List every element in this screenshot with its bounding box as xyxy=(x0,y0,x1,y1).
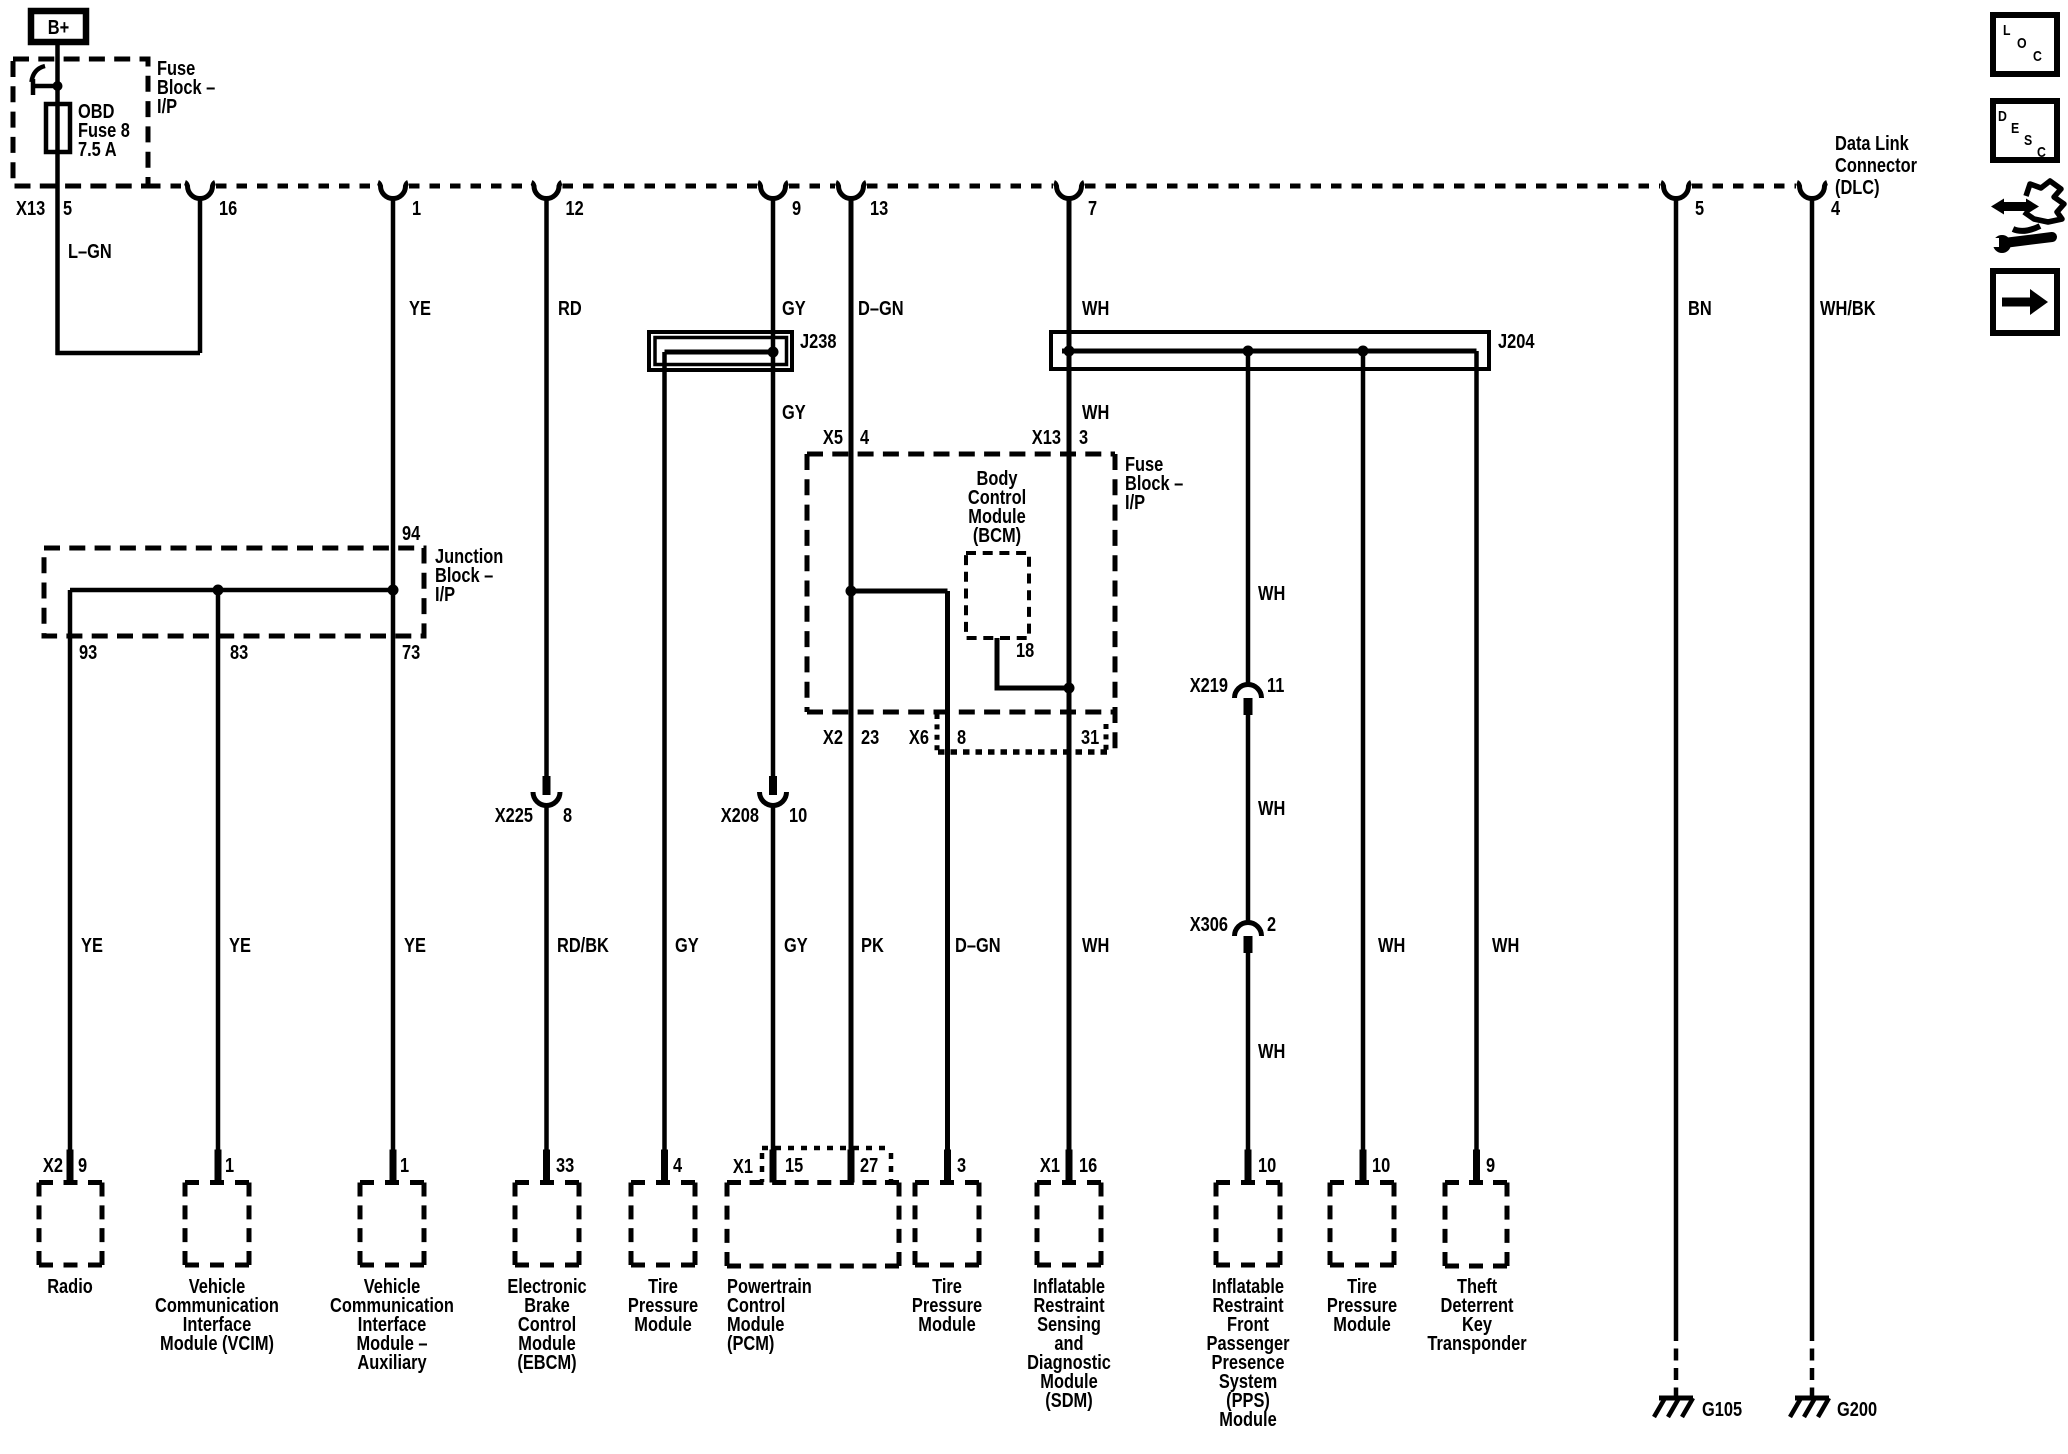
svg-text:X1: X1 xyxy=(733,1156,753,1178)
svg-text:11: 11 xyxy=(1267,675,1284,697)
svg-text:1: 1 xyxy=(412,198,421,220)
svg-text:31: 31 xyxy=(1081,727,1099,749)
svg-text:X2: X2 xyxy=(43,1155,63,1177)
svg-text:9: 9 xyxy=(1486,1155,1495,1177)
svg-text:Module: Module xyxy=(1219,1409,1276,1431)
svg-text:GY: GY xyxy=(675,935,699,957)
svg-text:73: 73 xyxy=(402,642,420,664)
svg-text:WH: WH xyxy=(1378,935,1405,957)
svg-text:WH: WH xyxy=(1082,298,1109,320)
svg-text:WH: WH xyxy=(1258,583,1285,605)
svg-text:O: O xyxy=(2017,35,2027,52)
svg-text:9: 9 xyxy=(792,198,801,220)
svg-text:Data Link: Data Link xyxy=(1835,133,1910,155)
svg-text:Connector: Connector xyxy=(1835,155,1917,177)
svg-text:4: 4 xyxy=(1831,198,1841,220)
svg-text:YE: YE xyxy=(229,935,251,957)
svg-text:2: 2 xyxy=(1267,914,1276,936)
svg-text:RD/BK: RD/BK xyxy=(557,935,609,957)
svg-text:27: 27 xyxy=(860,1155,878,1177)
svg-text:8: 8 xyxy=(957,727,966,749)
svg-text:RD: RD xyxy=(558,298,582,320)
svg-text:Module: Module xyxy=(1333,1314,1390,1336)
svg-text:L: L xyxy=(2003,22,2011,39)
svg-text:GY: GY xyxy=(782,298,806,320)
svg-text:G200: G200 xyxy=(1837,1399,1877,1421)
svg-text:7: 7 xyxy=(1088,198,1097,220)
svg-text:7.5 A: 7.5 A xyxy=(78,139,117,161)
svg-text:Module (VCIM): Module (VCIM) xyxy=(160,1333,274,1355)
svg-text:I/P: I/P xyxy=(435,584,455,606)
svg-text:WH: WH xyxy=(1082,402,1109,424)
svg-text:10: 10 xyxy=(1258,1155,1276,1177)
svg-text:23: 23 xyxy=(861,727,879,749)
svg-text:PK: PK xyxy=(861,935,884,957)
svg-text:WH: WH xyxy=(1258,798,1285,820)
svg-text:D–GN: D–GN xyxy=(858,298,904,320)
svg-text:10: 10 xyxy=(789,805,807,827)
svg-text:X5: X5 xyxy=(823,427,843,449)
svg-text:D: D xyxy=(1998,108,2007,125)
svg-text:Auxiliary: Auxiliary xyxy=(357,1352,427,1374)
svg-text:(SDM): (SDM) xyxy=(1045,1390,1092,1412)
svg-text:3: 3 xyxy=(1079,427,1088,449)
svg-text:D–GN: D–GN xyxy=(955,935,1001,957)
svg-text:X13: X13 xyxy=(16,198,45,220)
svg-text:16: 16 xyxy=(219,198,237,220)
svg-text:X306: X306 xyxy=(1190,914,1228,936)
svg-text:3: 3 xyxy=(957,1155,966,1177)
svg-text:1: 1 xyxy=(400,1155,409,1177)
svg-text:WH: WH xyxy=(1082,935,1109,957)
svg-text:J204: J204 xyxy=(1498,331,1535,353)
svg-text:YE: YE xyxy=(404,935,426,957)
svg-text:L–GN: L–GN xyxy=(68,241,112,263)
svg-text:93: 93 xyxy=(79,642,97,664)
svg-text:9: 9 xyxy=(78,1155,87,1177)
svg-text:8: 8 xyxy=(563,805,572,827)
svg-text:(BCM): (BCM) xyxy=(973,525,1021,547)
svg-text:5: 5 xyxy=(63,198,72,220)
svg-text:S: S xyxy=(2024,132,2032,149)
svg-text:16: 16 xyxy=(1079,1155,1097,1177)
svg-text:I/P: I/P xyxy=(1125,492,1145,514)
svg-text:(PCM): (PCM) xyxy=(727,1333,774,1355)
svg-text:YE: YE xyxy=(409,298,431,320)
svg-text:5: 5 xyxy=(1695,198,1704,220)
svg-text:4: 4 xyxy=(860,427,870,449)
svg-text:Module: Module xyxy=(918,1314,975,1336)
svg-text:12: 12 xyxy=(566,198,584,220)
svg-text:WH/BK: WH/BK xyxy=(1820,298,1876,320)
svg-text:GY: GY xyxy=(784,935,808,957)
svg-text:94: 94 xyxy=(402,523,421,545)
svg-text:(EBCM): (EBCM) xyxy=(517,1352,576,1374)
svg-text:4: 4 xyxy=(673,1155,683,1177)
svg-text:WH: WH xyxy=(1258,1041,1285,1063)
svg-text:15: 15 xyxy=(785,1155,803,1177)
svg-text:33: 33 xyxy=(556,1155,574,1177)
svg-text:Module: Module xyxy=(634,1314,691,1336)
svg-text:10: 10 xyxy=(1372,1155,1390,1177)
svg-text:X225: X225 xyxy=(495,805,533,827)
svg-text:X1: X1 xyxy=(1040,1155,1060,1177)
svg-text:GY: GY xyxy=(782,402,806,424)
svg-text:J238: J238 xyxy=(800,331,837,353)
svg-text:13: 13 xyxy=(870,198,888,220)
svg-text:Radio: Radio xyxy=(47,1276,93,1298)
svg-text:(DLC): (DLC) xyxy=(1835,177,1880,199)
svg-text:83: 83 xyxy=(230,642,248,664)
svg-text:Transponder: Transponder xyxy=(1427,1333,1526,1355)
svg-text:X208: X208 xyxy=(721,805,759,827)
svg-text:E: E xyxy=(2011,120,2019,137)
svg-text:I/P: I/P xyxy=(157,96,177,118)
svg-text:WH: WH xyxy=(1492,935,1519,957)
svg-text:18: 18 xyxy=(1016,640,1034,662)
svg-text:1: 1 xyxy=(225,1155,234,1177)
svg-text:X6: X6 xyxy=(909,727,929,749)
svg-text:X219: X219 xyxy=(1190,675,1228,697)
svg-text:C: C xyxy=(2033,48,2042,65)
svg-text:X13: X13 xyxy=(1032,427,1061,449)
svg-text:C: C xyxy=(2037,144,2046,161)
svg-text:YE: YE xyxy=(81,935,103,957)
svg-text:BN: BN xyxy=(1688,298,1712,320)
svg-text:G105: G105 xyxy=(1702,1399,1742,1421)
svg-text:B+: B+ xyxy=(48,17,69,39)
svg-text:X2: X2 xyxy=(823,727,843,749)
